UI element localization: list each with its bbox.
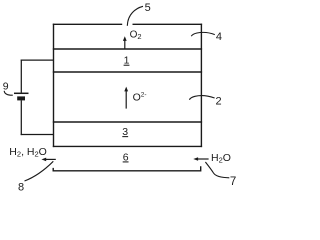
svg-text:9: 9 [3, 81, 9, 93]
wire top boundary line right segment [133, 23, 203, 25]
wire from battery positive to layer 1 [21, 59, 54, 61]
svg-text:H2, H2O: H2, H2O [9, 146, 47, 159]
wire battery lower lead [20, 100, 22, 135]
wire boundary line between layer 1 and layer 2 [53, 71, 202, 73]
svg-text:5: 5 [145, 2, 151, 14]
leader from label 4 to layer 4 [191, 32, 215, 36]
wire right edge of stack [200, 24, 202, 148]
wire top boundary line left segment (gap for outlet 5) [53, 23, 122, 25]
svg-text:8: 8 [18, 182, 24, 194]
wire boundary line between layer 3 and layer 6 [53, 145, 202, 147]
leader from label 7 to bottom tray [205, 162, 229, 178]
wire boundary line between layer 2 and layer 3 [53, 121, 202, 123]
svg-text:7: 7 [230, 176, 236, 188]
O2 gas flow arrow in layer 4 [123, 36, 127, 49]
wire left edge of stack [53, 24, 55, 148]
wire bottom tray under layer 6 [53, 166, 201, 171]
leader from label 2 to layer 2 [189, 96, 214, 100]
O2- ion flow arrow in layer 2 [124, 87, 128, 109]
svg-text:O2: O2 [130, 30, 142, 42]
wire from battery negative to layer 3 [21, 134, 54, 136]
leader from label 8 to fuel outlet arrow [25, 161, 54, 181]
leader from label 5 to gas outlet gap [127, 6, 143, 26]
svg-text:3: 3 [122, 126, 128, 138]
steam inlet arrow (H2O entering from right) [193, 157, 208, 161]
svg-text:4: 4 [216, 31, 222, 43]
wire battery upper lead [20, 60, 22, 93]
svg-text:2: 2 [216, 95, 222, 107]
leader from label 9 to battery [4, 91, 13, 95]
wire boundary line between layer 4 and layer 1 [53, 48, 202, 50]
svg-text:1: 1 [124, 55, 130, 67]
fuel outlet arrow (H2, H2O leaving left) [41, 158, 55, 162]
svg-text:6: 6 [123, 151, 129, 163]
battery 9 (dc voltage source) [14, 93, 29, 100]
